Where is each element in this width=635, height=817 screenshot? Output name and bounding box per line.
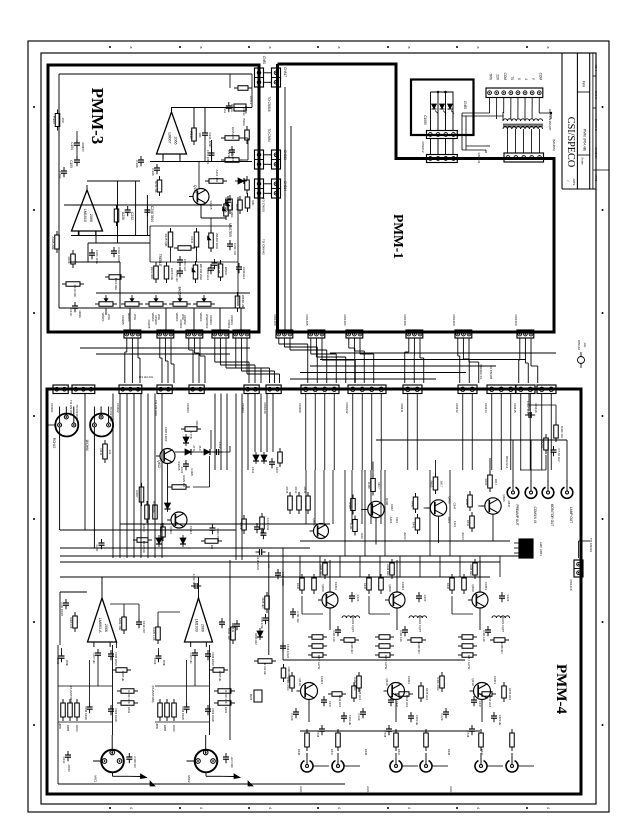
svg-text:MIC2: MIC2 <box>187 775 191 782</box>
svg-text:R460: R460 <box>367 482 371 489</box>
svg-text:R448 4K7: R448 4K7 <box>417 642 421 654</box>
svg-text:C416 19026: C416 19026 <box>84 706 87 720</box>
svg-text:C203 122: C203 122 <box>183 259 187 272</box>
svg-text:COM: COM <box>538 73 542 81</box>
svg-text:C312 10601: C312 10601 <box>206 150 210 165</box>
svg-text:C1080: C1080 <box>423 115 427 125</box>
svg-text:C231 220P: C231 220P <box>208 132 212 147</box>
svg-text:R446: R446 <box>348 502 352 509</box>
svg-text:LM1010: LM1010 <box>83 209 87 222</box>
svg-text:C196 DB: C196 DB <box>217 263 221 274</box>
svg-text:MASTER: MASTER <box>228 223 232 237</box>
svg-text:Firm: Firm <box>582 81 586 88</box>
svg-text:TO CN816: TO CN816 <box>267 96 271 111</box>
svg-text:C447: C447 <box>478 701 482 708</box>
svg-text:W8J08 300A: W8J08 300A <box>215 233 219 249</box>
svg-text:C211: C211 <box>223 107 227 114</box>
svg-text:TO CN1035: TO CN1035 <box>75 405 79 420</box>
svg-text:R100: R100 <box>52 116 56 124</box>
svg-text:200A: 200A <box>107 314 111 320</box>
svg-text:C434 19/20: C434 19/20 <box>192 574 196 589</box>
svg-text:a: a <box>407 47 411 49</box>
svg-text:2066: 2066 <box>89 214 93 222</box>
svg-text:C445 22023: C445 22023 <box>114 652 117 666</box>
svg-text:1KOHM: 1KOHM <box>85 439 89 451</box>
svg-text:10023: 10023 <box>75 725 78 733</box>
svg-text:C426: C426 <box>423 595 427 602</box>
svg-text:C4.2K: C4.2K <box>440 713 444 720</box>
svg-text:C04 470E: C04 470E <box>260 617 264 629</box>
svg-text:CN1012: CN1012 <box>421 141 425 152</box>
svg-text:Q400: Q400 <box>388 584 392 592</box>
svg-text:44F3: 44F3 <box>395 517 399 523</box>
svg-text:LMP #4B1: LMP #4B1 <box>539 542 543 556</box>
svg-text:C230 132: C230 132 <box>233 243 237 256</box>
svg-text:R426 47RC: R426 47RC <box>286 677 290 691</box>
svg-text:W8J04: W8J04 <box>224 267 228 276</box>
svg-text:MIC: MIC <box>251 200 255 205</box>
svg-text:R200 81E: R200 81E <box>114 278 118 291</box>
svg-text:(MAINS): (MAINS) <box>552 139 556 151</box>
svg-text:Q410: Q410 <box>471 678 475 686</box>
svg-text:CN205: CN205 <box>147 320 151 329</box>
svg-text:(PHANTOM): (PHANTOM) <box>69 686 73 703</box>
svg-text:44C3: 44C3 <box>453 521 457 528</box>
svg-text:4: 4 <box>129 807 133 809</box>
svg-text:C432: C432 <box>62 757 66 764</box>
svg-text:CN206: CN206 <box>154 315 158 325</box>
svg-text:160.7: 160.7 <box>377 482 381 489</box>
svg-text:C220 112: C220 112 <box>175 270 179 282</box>
svg-text:C428 3.3D/9: C428 3.3D/9 <box>164 427 168 442</box>
svg-text:R429 1.0K: R429 1.0K <box>152 627 156 640</box>
svg-text:R430: R430 <box>446 583 450 590</box>
svg-text:C208 3900: C208 3900 <box>150 206 154 222</box>
svg-text:C193: C193 <box>69 160 73 168</box>
svg-text:R437: R437 <box>275 467 279 474</box>
svg-text:10003: 10003 <box>78 310 82 318</box>
svg-text:R436 HC2: R436 HC2 <box>338 695 342 708</box>
svg-text:A206: A206 <box>121 212 125 220</box>
svg-text:BASS: BASS <box>178 287 182 297</box>
svg-text:R445 HC2: R445 HC2 <box>425 688 429 701</box>
svg-text:C1813: C1813 <box>484 582 488 591</box>
svg-text:W8J00: W8J00 <box>175 313 179 322</box>
svg-text:+C426 WE02: +C426 WE02 <box>281 570 285 586</box>
svg-text:PR56: PR56 <box>249 694 253 701</box>
svg-text:R445 HC2: R445 HC2 <box>508 688 512 701</box>
svg-text:C431 412: C431 412 <box>296 611 300 623</box>
svg-text:TO CN308: TO CN308 <box>489 365 493 380</box>
svg-text:W8J04 29K: W8J04 29K <box>241 295 245 309</box>
svg-text:C192: C192 <box>58 171 62 179</box>
svg-text:Q190: Q190 <box>193 185 197 193</box>
svg-text:CN1405: CN1405 <box>305 314 309 325</box>
svg-text:2066: 2066 <box>174 137 178 145</box>
svg-text:R411: R411 <box>99 449 103 456</box>
svg-text:R438: R438 <box>297 749 301 756</box>
svg-text:100: 100 <box>61 117 65 122</box>
svg-text:DATE: DATE <box>572 179 576 186</box>
svg-text:CN1040: CN1040 <box>263 402 267 413</box>
svg-text:C210: C210 <box>69 309 73 316</box>
svg-text:4: 4 <box>407 807 411 809</box>
svg-text:R210 29K: R210 29K <box>73 285 77 298</box>
svg-text:CN401: CN401 <box>50 403 54 413</box>
svg-text:C406 10026: C406 10026 <box>114 708 117 722</box>
svg-text:B203: B203 <box>242 118 246 125</box>
svg-text:R437: R437 <box>330 749 334 756</box>
svg-text:R432 10C: R432 10C <box>142 541 146 554</box>
svg-text:AUX2: AUX2 <box>449 786 453 794</box>
svg-text:C418 410: C418 410 <box>133 756 137 768</box>
svg-text:R417 GLYW: R417 GLYW <box>467 655 471 670</box>
svg-text:R406 10K: R406 10K <box>69 617 72 628</box>
svg-text:C445 22023: C445 22023 <box>211 652 214 666</box>
svg-text:+12 C416: +12 C416 <box>230 756 234 768</box>
svg-text:2#10: 2#10 <box>360 533 364 540</box>
svg-text:TO CN84: TO CN84 <box>267 128 271 142</box>
svg-text:R436 HC2: R436 HC2 <box>405 695 409 708</box>
svg-text:RCH#2.2: RCH#2.2 <box>505 456 509 469</box>
svg-text:C406 10026: C406 10026 <box>211 708 214 722</box>
svg-text:36T: 36T <box>210 545 214 550</box>
svg-text:JR55: JR55 <box>58 723 61 729</box>
svg-text:C313: C313 <box>242 108 246 116</box>
svg-text:R437: R437 <box>397 749 401 756</box>
svg-text:160.7: 160.7 <box>494 479 498 486</box>
svg-text:4: 4 <box>199 807 203 809</box>
svg-text:COM/LN #4: COM/LN #4 <box>533 507 537 524</box>
svg-text:Q410: Q410 <box>298 678 302 686</box>
svg-text:C4.2K: C4.2K <box>357 713 361 720</box>
svg-text:3.3D/9: 3.3D/9 <box>190 468 194 476</box>
svg-text:W8J00: W8J00 <box>101 313 105 322</box>
svg-text:A446 DE1: A446 DE1 <box>469 564 472 576</box>
svg-text:343B 4E1: 343B 4E1 <box>261 597 265 609</box>
svg-text:CN1418: CN1418 <box>569 579 573 590</box>
svg-text:TO CN1040: TO CN1040 <box>109 407 113 422</box>
svg-text:R441: R441 <box>412 522 416 529</box>
svg-text:B'1 H2-CA: B'1 H2-CA <box>139 375 153 379</box>
svg-text:CY28: CY28 <box>383 731 387 738</box>
svg-text:JR55: JR55 <box>155 723 158 729</box>
svg-text:C441 12K: C441 12K <box>399 630 403 642</box>
svg-text:A40E 10E: A40E 10E <box>118 618 122 631</box>
svg-text:RCH#2: RCH#2 <box>52 438 56 449</box>
svg-text:CSI/SPECO: CSI/SPECO <box>565 117 576 167</box>
svg-text:LAMP OUT: LAMP OUT <box>569 507 573 523</box>
svg-text:C847: C847 <box>453 503 457 510</box>
svg-text:SHT 2: SHT 2 <box>594 91 598 99</box>
svg-text:BEDKC CL: BEDKC CL <box>479 364 483 379</box>
svg-text:CN817: CN817 <box>283 67 287 77</box>
svg-text:C441 12K: C441 12K <box>332 630 336 642</box>
svg-text:2066: 2066 <box>104 624 108 632</box>
svg-text:10023: 10023 <box>172 725 175 733</box>
svg-text:C420: C420 <box>260 528 264 535</box>
svg-text:R446: R446 <box>411 501 415 508</box>
svg-text:a: a <box>268 47 272 49</box>
svg-text:CN411: CN411 <box>400 403 404 412</box>
svg-text:PMM. (P64.4B): PMM. (P64.4B) <box>583 129 587 151</box>
svg-text:R415: R415 <box>285 487 289 494</box>
svg-text:CN203: CN203 <box>205 320 209 329</box>
svg-text:Scale: Scale <box>581 157 585 165</box>
svg-text:A40Z HE: A40Z HE <box>218 671 222 682</box>
svg-text:PMM-1: PMM-1 <box>391 214 406 259</box>
svg-text:R315 PIO: R315 PIO <box>231 127 235 140</box>
svg-text:CN202: CN202 <box>183 315 187 325</box>
svg-text:R417 GLYW: R417 GLYW <box>384 655 388 670</box>
svg-text:R440 102: R440 102 <box>560 426 564 439</box>
svg-text:CN415: CN415 <box>513 403 517 413</box>
svg-text:CN402: CN402 <box>116 403 120 413</box>
svg-text:R419: R419 <box>224 707 228 714</box>
svg-text:R208: R208 <box>67 257 71 264</box>
svg-text:R430: R430 <box>296 583 300 590</box>
svg-text:CN80: CN80 <box>262 56 266 64</box>
svg-text:TO CN301: TO CN301 <box>589 538 593 553</box>
svg-text:MONITOR OUT: MONITOR OUT <box>550 504 554 527</box>
svg-text:R460: R460 <box>484 479 488 486</box>
svg-text:R437: R437 <box>480 749 484 756</box>
svg-text:22V: 22V <box>496 74 500 81</box>
svg-text:20023: 20023 <box>67 764 71 772</box>
svg-text:R400: R400 <box>142 524 146 532</box>
svg-text:C1813: C1813 <box>401 582 405 591</box>
svg-text:R417 GLYW: R417 GLYW <box>317 655 321 670</box>
svg-text:PMM-3: PMM-3 <box>88 88 107 145</box>
svg-text:C202 10020: C202 10020 <box>117 247 121 263</box>
svg-text:A214 15K: A214 15K <box>215 170 219 183</box>
svg-text:CN205: CN205 <box>121 315 125 325</box>
svg-text:AUX2: AUX2 <box>403 532 407 540</box>
svg-text:Q400: Q400 <box>321 584 325 592</box>
svg-text:C443: C443 <box>231 626 235 633</box>
svg-text:R426 10K: R426 10K <box>152 501 156 513</box>
svg-text:C1813: C1813 <box>320 676 324 685</box>
svg-text:R426 47RC: R426 47RC <box>436 677 440 691</box>
svg-text:C196: C196 <box>151 168 155 176</box>
svg-text:CN412: CN412 <box>455 403 459 413</box>
svg-text:A446 DE1: A446 DE1 <box>319 564 322 576</box>
svg-text:4: 4 <box>268 807 272 809</box>
svg-text:DIN142: DIN142 <box>577 340 581 351</box>
svg-text:A40Z HE: A40Z HE <box>121 671 125 682</box>
svg-text:CN1400: CN1400 <box>514 314 518 325</box>
svg-text:W8 200 200A: W8 200 200A <box>199 264 203 280</box>
svg-text:W8J00: W8J00 <box>199 313 203 322</box>
svg-text:C447 HD: C447 HD <box>189 653 193 664</box>
svg-text:AUX3: AUX3 <box>461 532 465 540</box>
svg-text:21-4: 21-4 <box>594 65 598 71</box>
svg-text:R403: R403 <box>195 421 199 428</box>
svg-text:C190 HL3: C190 HL3 <box>242 267 246 280</box>
svg-text:CN413: CN413 <box>484 403 488 413</box>
svg-text:CT-06 102: CT-06 102 <box>557 448 561 462</box>
svg-text:131: 131 <box>108 449 112 454</box>
svg-text:C411 10023: C411 10023 <box>60 602 63 616</box>
svg-text:PREAMP OUT: PREAMP OUT <box>515 504 519 525</box>
svg-text:a: a <box>476 47 480 49</box>
svg-text:A198 29E: A198 29E <box>51 236 55 249</box>
svg-text:LM1033: LM1033 <box>195 619 199 632</box>
svg-text:CN1042: CN1042 <box>345 402 349 413</box>
svg-text:R448 4K7: R448 4K7 <box>500 642 504 654</box>
svg-text:R45B: R45B <box>66 725 69 732</box>
svg-text:R47W 4.7K: R47W 4.7K <box>127 690 131 704</box>
svg-text:CN403: CN403 <box>186 403 190 413</box>
svg-text:CN204: CN204 <box>230 315 234 325</box>
svg-text:CN1011: CN1011 <box>477 153 481 164</box>
svg-text:R429 3M: R429 3M <box>182 475 186 487</box>
svg-text:4.7TB: 4.7TB <box>189 431 193 439</box>
svg-text:A216: A216 <box>235 204 239 211</box>
svg-text:C443 HE: C443 HE <box>348 715 352 726</box>
svg-text:R441: R441 <box>466 520 470 527</box>
svg-text:MH021 CQPT: MH021 CQPT <box>418 616 422 633</box>
svg-text:COM: COM <box>503 73 507 81</box>
svg-text:C1813: C1813 <box>493 676 497 685</box>
svg-text:PMM-4: PMM-4 <box>553 664 569 714</box>
svg-text:C443 HE: C443 HE <box>498 715 502 726</box>
svg-text:4: 4 <box>337 807 341 809</box>
svg-text:C198: C198 <box>135 160 139 168</box>
svg-text:CN202: CN202 <box>179 320 183 329</box>
svg-text:C426: C426 <box>506 595 510 602</box>
svg-text:C447 HD: C447 HD <box>92 653 96 664</box>
svg-text:Q406: Q406 <box>448 496 452 504</box>
svg-text:C416 19026: C416 19026 <box>181 706 184 720</box>
svg-text:CHKD BY: CHKD BY <box>594 147 598 159</box>
svg-text:CN1406: CN1406 <box>403 314 407 325</box>
svg-text:R413: R413 <box>294 487 298 494</box>
svg-text:DRWN G: DRWN G <box>594 119 598 131</box>
svg-text:C242: C242 <box>223 203 227 210</box>
svg-text:C847: C847 <box>390 504 394 511</box>
svg-text:A208 10E: A208 10E <box>170 268 174 280</box>
svg-text:200A: 200A <box>133 314 137 320</box>
svg-text:4: 4 <box>546 807 550 809</box>
svg-text:R438: R438 <box>364 749 368 756</box>
svg-text:CN1400: CN1400 <box>452 314 456 325</box>
svg-text:MH021 CQPT: MH021 CQPT <box>351 616 355 633</box>
svg-text:CN1404: CN1404 <box>343 314 347 325</box>
svg-text:R.412 HE: R.412 HE <box>263 663 267 675</box>
svg-text:C441 12K: C441 12K <box>482 630 486 642</box>
svg-text:DET-CN30A(OT: DET-CN30A(OT <box>548 109 552 131</box>
svg-text:MH021 CQPT: MH021 CQPT <box>501 616 505 633</box>
svg-text:OP46 OE7: OP46 OE7 <box>254 633 257 646</box>
svg-text:CN1406: CN1406 <box>273 314 277 325</box>
svg-text:C406: C406 <box>153 658 157 665</box>
svg-text:LM067: LM067 <box>168 133 172 144</box>
svg-text:C413: C413 <box>251 467 255 474</box>
svg-text:C194: C194 <box>70 142 74 150</box>
svg-text:45-9: 45-9 <box>198 445 202 451</box>
svg-text:R47W 4.7K: R47W 4.7K <box>224 690 228 704</box>
svg-text:Q406: Q406 <box>385 498 389 506</box>
svg-text:/: / <box>566 181 570 182</box>
svg-text:R345 90B: R345 90B <box>164 234 168 247</box>
svg-text:a: a <box>129 47 133 49</box>
svg-text:CY28: CY28 <box>466 731 470 738</box>
svg-text:R419: R419 <box>127 707 131 714</box>
svg-text:45NF: 45NF <box>65 660 68 667</box>
svg-text:AT.9: AT.9 <box>192 445 196 451</box>
svg-text:45NF: 45NF <box>162 660 165 667</box>
svg-text:C411 22023: C411 22023 <box>256 556 260 570</box>
svg-text:C4.2K: C4.2K <box>290 713 294 720</box>
svg-text:TRN: TRN <box>489 73 493 80</box>
svg-text:T0: T0 <box>510 76 514 80</box>
svg-text:CK16 10023: CK16 10023 <box>286 644 289 659</box>
svg-text:CN80: CN80 <box>463 101 467 109</box>
svg-text:R446: R446 <box>465 499 469 506</box>
svg-text:R211 10L: R211 10L <box>154 181 158 193</box>
svg-text:R45B: R45B <box>163 725 166 732</box>
svg-text:LM063-A: LM063-A <box>98 618 102 633</box>
svg-text:A4C5: A4C5 <box>389 517 393 524</box>
svg-text:Q406: Q406 <box>502 494 506 502</box>
svg-text:R241: R241 <box>190 237 194 244</box>
svg-text:AUX2: AUX2 <box>299 786 303 794</box>
svg-text:4: 4 <box>524 78 528 80</box>
svg-text:C443 HE: C443 HE <box>415 715 419 726</box>
svg-text:R426 47RC: R426 47RC <box>353 677 357 691</box>
svg-text:a: a <box>337 47 341 49</box>
svg-text:C201 107E: C201 107E <box>95 250 99 264</box>
svg-text:R407: R407 <box>135 490 139 498</box>
svg-text:a: a <box>546 47 550 49</box>
svg-text:CY28: CY28 <box>316 731 320 738</box>
svg-text:CN203: CN203 <box>209 315 213 325</box>
svg-text:R215: R215 <box>189 131 193 139</box>
svg-text:AUX2: AUX2 <box>366 786 370 794</box>
svg-text:(PHANTOM): (PHANTOM) <box>151 686 155 703</box>
svg-text:R441: R441 <box>349 523 353 530</box>
svg-text:TO CN8442: TO CN8442 <box>262 239 266 255</box>
svg-text:R438: R438 <box>447 749 451 756</box>
svg-text:C202: C202 <box>130 212 134 220</box>
svg-text:-AC-: -AC- <box>583 342 587 348</box>
svg-text:C426: C426 <box>356 595 360 602</box>
svg-text:R430: R430 <box>363 583 367 590</box>
svg-text:MIC1: MIC1 <box>94 775 98 782</box>
svg-text:CN408: CN408 <box>298 403 302 413</box>
svg-text:4: 4 <box>476 807 480 809</box>
svg-text:C1813: C1813 <box>334 582 338 591</box>
svg-text:C447: C447 <box>328 701 332 708</box>
svg-text:C422: C422 <box>180 467 184 474</box>
svg-text:C1813: C1813 <box>407 676 411 685</box>
svg-text:C439 21P: C439 21P <box>142 621 146 634</box>
svg-text:Q400: Q400 <box>471 584 475 592</box>
svg-text:a: a <box>199 47 203 49</box>
svg-text:600PD: 600PD <box>81 142 85 152</box>
svg-text:R448 4K7: R448 4K7 <box>350 642 354 654</box>
svg-text:A446 DE1: A446 DE1 <box>386 564 389 576</box>
svg-text:C212: C212 <box>227 150 231 158</box>
svg-text:C200 HL3: C200 HL3 <box>206 268 210 281</box>
svg-text:C1N 2: C1N 2 <box>249 96 253 105</box>
svg-text:TREBLE: TREBLE <box>158 254 162 268</box>
svg-text:R436 HC2: R436 HC2 <box>488 695 492 708</box>
svg-text:APPD: APPD <box>594 174 598 181</box>
svg-text:C1815: C1815 <box>209 201 213 210</box>
svg-text:C847: C847 <box>507 501 511 508</box>
